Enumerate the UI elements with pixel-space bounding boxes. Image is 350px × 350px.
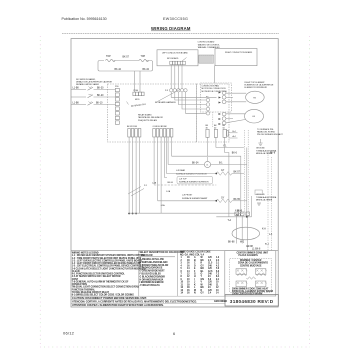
junction dots (128, 213, 130, 215)
caution rows (72, 296, 197, 307)
relay contact pins right (222, 91, 226, 125)
surface element row 3 zigzag (216, 199, 247, 203)
svg-text:BK-55: BK-55 (234, 199, 241, 201)
relay contacts column arrows (219, 92, 222, 126)
element 2 squiggle (139, 59, 149, 61)
svg-text:OL: OL (206, 165, 208, 167)
warmer wattage labels (232, 287, 273, 295)
svg-text:G: G (194, 274, 196, 276)
convection connector circles (206, 98, 210, 115)
svg-text:I BROWN/CAFE/BRUN: I BROWN/CAFE/BRUN (140, 281, 164, 284)
svg-text:T-A: T-A (228, 219, 232, 222)
caution separators (71, 296, 225, 303)
svg-text:BK-6: BK-6 (232, 152, 238, 154)
svg-text:CONVECTION: CONVECTION (72, 284, 87, 286)
svg-text:CLEAN: CLEAN (72, 270, 80, 273)
svg-text:BK: BK (201, 287, 205, 289)
annotation arrow mid left (128, 187, 144, 197)
relay board dashed box (108, 84, 197, 142)
svg-text:BL-2: BL-2 (265, 244, 269, 246)
drop from pin1 (207, 137, 209, 156)
svg-text:G BLACK/NEGRO/NOIR: G BLACK/NEGRO/NOIR (140, 275, 166, 278)
dotted verticals right of elements (244, 130, 248, 217)
svg-text:MISE A LA TERRE: MISE A LA TERRE (256, 152, 273, 155)
svg-text:2-6 CLEAN LATCH SELECT LIGHT J: 2-6 CLEAN LATCH SELECT LIGHT JUNCTION AC… (72, 267, 146, 270)
svg-text:WARMER / CENTER: WARMER / CENTER (240, 259, 262, 262)
wire drop from loop to relay board (134, 71, 136, 92)
svg-text:06/12: 06/12 (63, 331, 75, 336)
group1 wire drops (129, 137, 140, 214)
svg-text:12.6: 12.6 (208, 271, 213, 273)
divider before table (176, 251, 178, 296)
row 3 junction dot (215, 200, 217, 202)
fold mark bottom horizontal dotted (40, 346, 310, 348)
svg-text:P-3: P-3 (165, 90, 168, 92)
svg-text:W-2: W-2 (240, 242, 245, 244)
svg-text:30: 30 (206, 128, 208, 130)
svg-text:N L1 L2: N L1 L2 (235, 210, 242, 212)
svg-text:BK-34: BK-34 (192, 162, 199, 164)
right frame inner wires vertical (247, 148, 252, 217)
svg-text:TOP: TOP (141, 56, 146, 58)
surface element row 2 labels (177, 176, 213, 184)
svg-text:LEFT CONDUCTION BOARD: LEFT CONDUCTION BOARD (162, 52, 188, 55)
svg-text:TM (DUAL LIGHT CONVECTION SELE: TM (DUAL LIGHT CONVECTION SELECT CONVECT… (72, 286, 139, 289)
svg-text:GY: GY (221, 170, 225, 172)
broil drop connector (133, 92, 144, 96)
svg-text:L1-BK: L1-BK (73, 103, 80, 105)
svg-text:BK-56: BK-56 (168, 182, 173, 184)
surface element circle 1 (246, 91, 265, 103)
svg-text:GN: GN (201, 279, 205, 281)
svg-text:CONTROL BOARD: CONTROL BOARD (198, 41, 215, 44)
convection fan dotted box (200, 83, 231, 112)
element label right top (245, 82, 275, 89)
svg-text:BK-88: BK-88 (228, 242, 235, 244)
user interface board box left (157, 50, 198, 66)
relay bottom pins group 2 (153, 129, 173, 138)
relay board label (138, 114, 163, 122)
surface element row 3 wire (158, 200, 217, 202)
second dashed enclosure (197, 84, 230, 142)
svg-text:PNL DE SURFACE EN HAUT: PNL DE SURFACE EN HAUT (257, 133, 283, 136)
svg-text:KEYBOARD HARNESS: KEYBOARD HARNESS (155, 101, 176, 104)
legend block left (72, 253, 146, 297)
svg-text:40: 40 (214, 128, 216, 130)
diag annotation (158, 89, 181, 101)
switch line 3 (71, 102, 115, 106)
svg-text:TARJETA DEL RELEVADOR: TARJETA DEL RELEVADOR (138, 116, 163, 119)
svg-text:BK-57: BK-57 (123, 57, 130, 59)
svg-text:C CODED PANELS/COLOR: C CODED PANELS/COLOR (140, 264, 169, 267)
junction dot row C (246, 216, 248, 218)
power cord oval (232, 227, 260, 240)
svg-text:L-R REAR: L-R REAR (176, 169, 186, 172)
svg-text:CAUTION: DISCONNECT POWER BEFO: CAUTION: DISCONNECT POWER BEFORE SERVICI… (72, 296, 147, 300)
UI drop staircase to fan connector (171, 92, 216, 113)
connector callout line (182, 58, 187, 62)
svg-text:GROUND: GROUND (256, 148, 265, 150)
to surface note (257, 128, 283, 136)
svg-text:GROUNDED: GROUNDED (214, 301, 228, 303)
warmer inner dashed box (230, 258, 272, 292)
svg-text:BR: BR (201, 268, 205, 270)
svg-text:L1 BK-8: L1 BK-8 (252, 249, 261, 251)
wire gauge table (180, 251, 220, 295)
svg-text:GY: GY (201, 293, 205, 295)
svg-text:1-3 : LEFT OVEN ELECTRIC CONTR: 1-3 : LEFT OVEN ELECTRIC CONTROLLER PANE… (72, 260, 143, 263)
element 1 squiggle (106, 59, 116, 61)
svg-text:BK-10: BK-10 (96, 103, 103, 105)
svg-text:L-R TOP: L-R TOP (179, 178, 187, 180)
svg-text:GY: GY (221, 198, 225, 200)
svg-text:MOD: MOD (135, 99, 140, 101)
no service parts note (76, 78, 113, 86)
svg-text:SELECT DESCRIPTION OF COLOR CO: SELECT DESCRIPTION OF COLOR CODE (140, 252, 185, 254)
svg-text:RIGHT CONDUCTION BOARD: RIGHT CONDUCTION BOARD (225, 51, 253, 54)
connecting squiggle between groups (247, 277, 256, 279)
surface element row 1 labels (176, 169, 207, 176)
stub wires B-4 A-4 (229, 132, 238, 134)
svg-text:11.5: 11.5 (208, 263, 213, 265)
wire mid horizontal 2 (172, 156, 241, 213)
svg-text:D RED/ROJO/ROUGE: D RED/ROJO/ROUGE (140, 268, 163, 270)
svg-text:SURFACE ELEMENT AVANT: SURFACE ELEMENT AVANT (182, 197, 208, 200)
mid resistor pins (206, 129, 229, 137)
svg-text:4-5 AT SERVO SWITCH CKT. SELEC: 4-5 AT SERVO SWITCH CKT. SELECT MOTOR (72, 275, 121, 278)
wire row C (216, 216, 251, 218)
row mid wire (154, 184, 216, 186)
svg-text:P160: P160 (134, 90, 139, 92)
title underline (151, 30, 191, 32)
svg-text:BK-42: BK-42 (115, 69, 122, 71)
svg-text:MOTOR DE CONVECCION: MOTOR DE CONVECCION (202, 88, 227, 90)
dotted vertical inner (212, 112, 214, 128)
svg-text:RELAY BOARD: RELAY BOARD (138, 114, 152, 117)
svg-text:O BK BU BR BK: O BK BU BR BK (153, 126, 168, 128)
warmer zone label (237, 252, 269, 257)
svg-text:1-5 : CKT ELECTRICAL CONTROLLE: 1-5 : CKT ELECTRICAL CONTROLLER PANEL DE… (72, 265, 144, 268)
svg-text:L-R FRONT: L-R FRONT (182, 195, 193, 197)
connector pins UI board (170, 61, 186, 64)
mid motor circle (204, 161, 210, 167)
surface element row 1 zigzag (216, 172, 244, 176)
svg-text:J VIOLET/VIOLETA: J VIOLET/VIOLETA (140, 284, 161, 287)
svg-text:P30: P30 (115, 86, 118, 88)
broil element loop wire (98, 61, 153, 72)
ground label 2 (256, 194, 277, 202)
svg-text:6: 6 (173, 332, 175, 336)
switch line 1 (71, 87, 115, 91)
svg-text:SURFACE ELEMENT SUPERIOR: SURFACE ELEMENT SUPERIOR (179, 181, 209, 184)
wire mid horizontal 1 (216, 147, 244, 149)
control board label (198, 41, 221, 50)
wire from motor right (211, 164, 247, 166)
svg-text:1-4 : LEFT FRONT CIRCUIT CONTR: 1-4 : LEFT FRONT CIRCUIT CONTROLLER DEVI… (72, 262, 142, 265)
svg-text:TOMADA A LA TIERRA: TOMADA A LA TIERRA (256, 149, 277, 152)
convection fan label (202, 85, 228, 93)
svg-text:WIRE GAUGE COLOR CODE: WIRE GAUGE COLOR CODE (180, 251, 211, 254)
svg-text:K-A: K-A (262, 228, 266, 231)
surface element circle 2 (245, 109, 264, 123)
svg-text:BK-20: BK-20 (97, 95, 104, 97)
svg-text:50: 50 (223, 128, 225, 130)
wire to motor left (168, 164, 204, 166)
drop from pin2 (215, 137, 217, 147)
svg-text:F BLUE/AZUL/BLEU: F BLUE/AZUL/BLEU (140, 273, 162, 276)
svg-text:BK W R BK: BK W R BK (127, 126, 138, 128)
svg-text:7-8 GENERAL AUTO-ALARM M THERM: 7-8 GENERAL AUTO-ALARM M THERMOSTAT CK O… (72, 280, 129, 283)
svg-text:TO DBL RELEASE CIRCUIT RELAY: TO DBL RELEASE CIRCUIT RELAY (72, 291, 110, 294)
svg-text:300W SIMMER COOK ZONE HEAT: 300W SIMMER COOK ZONE HEAT (232, 287, 269, 290)
fold mark left vertical dotted (39, 36, 41, 347)
svg-text:EW30CC55G: EW30CC55G (163, 17, 188, 21)
svg-text:A AMARILLO/YELLOW: A AMARILLO/YELLOW (140, 258, 165, 261)
warmer inner label (238, 259, 268, 268)
svg-text:ELEMENTO DE LA SUPERFICIE: ELEMENTO DE LA SUPERFICIE (245, 84, 275, 87)
part number box (225, 295, 278, 306)
group2 wire drops (154, 137, 172, 213)
small component box (255, 190, 262, 195)
legend divider (138, 251, 140, 297)
svg-text:Publication No. 5995616130: Publication No. 5995616130 (62, 17, 107, 21)
UI board wire drops (171, 65, 182, 89)
svg-text:PLACA CALIENTE: PLACA CALIENTE (239, 254, 259, 257)
svg-text:1-2 : TIME FRONT PARTS SELECTI: 1-2 : TIME FRONT PARTS SELECTION UNIT DE… (72, 257, 142, 260)
svg-text:H ORANGE/NARANJA: H ORANGE/NARANJA (140, 278, 164, 281)
main diagram frame (71, 39, 278, 307)
svg-text:CENTRE MIJOTAGE: CENTRE MIJOTAGE (240, 265, 262, 268)
svg-text:KEY BOARD: KEY BOARD (167, 57, 179, 60)
svg-text:MISE A LA TERRE: MISE A LA TERRE (256, 199, 273, 202)
wire drop 2 from loop (139, 71, 141, 92)
svg-text:P-1: P-1 (144, 185, 147, 187)
svg-text:ELEMENT POSTERIEUR: ELEMENT POSTERIEUR (245, 87, 268, 89)
row 1 junction dot (215, 173, 217, 175)
svg-text:1-1 : WATER HEAT-RESISTANT SYS: 1-1 : WATER HEAT-RESISTANT SYSTEM CONTRO… (72, 254, 146, 257)
svg-text:BK-30: BK-30 (97, 88, 104, 90)
surface element row 1 wire (167, 173, 217, 175)
svg-text:ZONA DE CALENTAMIENTO: ZONA DE CALENTAMIENTO (238, 262, 268, 265)
svg-text:L1-BK: L1-BK (73, 88, 80, 90)
broil loop top wire middle (114, 60, 140, 62)
fold mark right vertical dotted (309, 36, 311, 347)
header rule (62, 33, 279, 35)
svg-text:NO. GA. AWG COL V A: NO. GA. AWG COL V A (180, 253, 205, 256)
svg-text:CONVECTION FAN: CONVECTION FAN (202, 85, 220, 88)
svg-text:WIRING DIAGRAM: WIRING DIAGRAM (151, 26, 191, 31)
svg-text:BK-57: BK-57 (234, 172, 241, 174)
ribbon cable crosshatch (199, 55, 214, 63)
surface element row 3 labels (182, 195, 208, 201)
ground symbol 2 (257, 203, 261, 205)
ground label (256, 148, 277, 155)
wires to element 1 (226, 93, 246, 123)
svg-text:PLAQUETTE RELAIS: PLAQUETTE RELAIS (138, 119, 158, 122)
svg-text:GY: GY (201, 265, 205, 267)
relay bottom pins group 1 (128, 129, 141, 138)
power terminal block squares (235, 212, 250, 216)
color block header underline (139, 256, 175, 258)
svg-text:TOMADA A LA TIERRA: TOMADA A LA TIERRA (256, 196, 277, 199)
relay power board box right (215, 49, 257, 66)
dotted verticals far right (268, 150, 271, 251)
warmer element left (236, 269, 247, 287)
svg-text:BK: BK (201, 260, 205, 262)
svg-text:TABLERO DE CONTROL: TABLERO DE CONTROL (198, 43, 221, 46)
ground symbol (258, 139, 262, 145)
svg-text:E GREEN/VERDE/VERT: E GREEN/VERDE/VERT (140, 271, 166, 273)
svg-text:M: M (194, 290, 196, 292)
cord wires through oval (237, 216, 248, 251)
color code block middle (140, 252, 185, 287)
svg-text:FUNCTION THERMAL: FUNCTION THERMAL (72, 288, 96, 291)
wire mid horizontal 3 (225, 137, 229, 216)
switch line 2 (71, 94, 115, 98)
svg-text:B WHITE/BLANCO/BLANC: B WHITE/BLANCO/BLANC (140, 261, 169, 264)
wire row B long (129, 212, 243, 214)
UI drops connector circles (170, 89, 188, 92)
notes section top border (71, 250, 278, 252)
svg-text:TOP: TOP (106, 56, 111, 58)
warmer zone box (225, 251, 276, 296)
svg-text:O: O (201, 274, 203, 276)
svg-text:ATTENTION: COUPEZ L'ALIMENTATI: ATTENTION: COUPEZ L'ALIMENTATION AVANT D… (72, 304, 164, 307)
wire from right board down (213, 66, 215, 83)
warmer element right (255, 269, 266, 287)
svg-text:318046830 REV:D: 318046830 REV:D (230, 299, 274, 304)
svg-text:SURFACE ELEMENT POSTERIOR: SURFACE ELEMENT POSTERIOR (176, 173, 207, 176)
motor top tick (207, 157, 209, 161)
svg-text:BK-34: BK-34 (143, 69, 150, 71)
svg-text:REPARE LIMITED SAFER: REPARE LIMITED SAFER (76, 83, 100, 86)
